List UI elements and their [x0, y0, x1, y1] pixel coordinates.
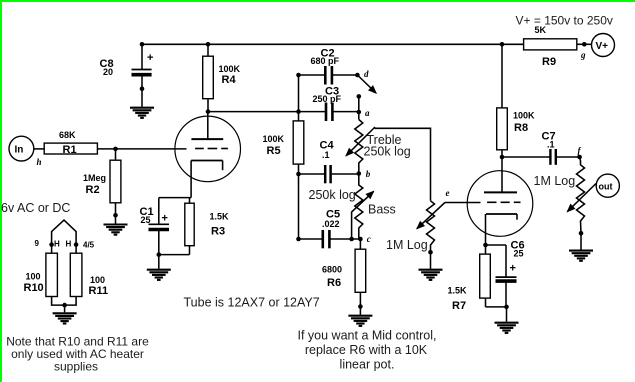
resistor R9 [524, 25, 577, 68]
svg-text:1.5K: 1.5K [210, 212, 230, 222]
top power rail wire [142, 43, 524, 45]
node: C4 left [296, 172, 301, 177]
capacitor C3 [299, 86, 359, 122]
wire anode to tone stack [208, 111, 299, 113]
resistor R10 [24, 245, 58, 297]
svg-text:Bass: Bass [368, 203, 396, 217]
svg-text:R3: R3 [211, 226, 225, 238]
node: R9 / V+ junction g [582, 42, 587, 47]
node b [357, 171, 362, 176]
potentiometer volume 1M Log [386, 201, 435, 252]
svg-text:R7: R7 [452, 300, 466, 312]
node on R6 ground lead [358, 304, 363, 309]
node: C2 left [296, 73, 301, 78]
wire R1 to grid [97, 148, 186, 150]
node c [358, 237, 363, 242]
pin label H H [54, 240, 72, 249]
ground (C8) [130, 108, 154, 118]
svg-text:g: g [580, 50, 586, 60]
ground (R6) [348, 316, 372, 326]
node: anode junction [206, 109, 211, 114]
resistor R3 [159, 198, 229, 255]
wire to ground [158, 255, 160, 269]
bass wiper arm [352, 188, 377, 239]
node: R1/R2 junction [113, 147, 118, 152]
node: C8 / rail corner [140, 42, 145, 47]
node: R11 top [74, 242, 79, 247]
svg-text:250k log: 250k log [309, 188, 356, 202]
node: R8 branch on rail [500, 42, 505, 47]
svg-text:R10: R10 [24, 282, 44, 294]
svg-text:R2: R2 [86, 184, 100, 196]
node: anode 2 junction [500, 155, 505, 160]
svg-text:20: 20 [103, 67, 113, 77]
svg-text:R4: R4 [222, 74, 237, 86]
svg-text:680 pF: 680 pF [311, 56, 340, 66]
node: R10 top [49, 242, 54, 247]
svg-text:V+: V+ [596, 41, 609, 52]
svg-text:1Meg: 1Meg [83, 173, 106, 183]
svg-text:R1: R1 [63, 144, 77, 156]
svg-text:9: 9 [35, 239, 40, 248]
svg-text:V+ = 150v to 250v: V+ = 150v to 250v [516, 14, 613, 28]
svg-text:+: + [162, 213, 168, 225]
wire cathode 2 to C6 [486, 244, 507, 246]
capacitor C4 [299, 140, 359, 184]
node: C3 left / bus [296, 109, 301, 114]
node f [577, 155, 582, 160]
svg-text:supplies: supplies [54, 360, 98, 374]
U1a grid dashes [195, 148, 228, 150]
capacitor C2 [299, 48, 358, 85]
node: cathode 2 junction [483, 243, 488, 248]
U1a plate [191, 112, 223, 140]
svg-text:R11: R11 [89, 285, 109, 297]
potentiometer output 1M Log [534, 157, 585, 233]
resistor R11 [70, 245, 108, 297]
svg-text:Tube is 12AX7 or 12AY7: Tube is 12AX7 or 12AY7 [184, 296, 320, 310]
node on output pot ground lead [579, 231, 584, 236]
svg-text:100: 100 [26, 272, 41, 282]
wire to ground [580, 233, 582, 249]
terminal Out [596, 174, 619, 197]
triode U1b envelope [467, 171, 533, 237]
heater tent wires [52, 220, 77, 245]
svg-text:100: 100 [90, 275, 105, 285]
svg-text:c: c [367, 234, 371, 244]
U1b cathode [486, 214, 518, 245]
triode U1a envelope [175, 116, 241, 182]
svg-text:1.5K: 1.5K [448, 286, 468, 296]
capacitor C6 [496, 240, 525, 307]
svg-text:.022: .022 [322, 219, 340, 229]
wire to ground [430, 252, 432, 269]
node: stage 2 ground junction [504, 305, 509, 310]
label: mid control note [298, 329, 437, 372]
node on R2 ground lead [113, 213, 118, 218]
svg-text:100K: 100K [219, 64, 241, 74]
node d [355, 73, 360, 78]
ground (output pot) [569, 251, 593, 261]
node: C1/R3 junction [157, 252, 162, 257]
svg-text:1M Log: 1M Log [386, 238, 428, 252]
svg-text:R8: R8 [514, 122, 528, 134]
wire R7/C6 bottoms [486, 306, 507, 308]
resistor R1 [44, 130, 97, 156]
node on C8 ground lead [140, 86, 145, 91]
node: C5 left [296, 237, 301, 242]
tone stack bus wire [298, 75, 300, 121]
svg-text:.1: .1 [322, 150, 330, 160]
ground (volume pot) [419, 270, 443, 280]
wire heater bottoms [52, 297, 77, 306]
resistor R6 [322, 239, 366, 315]
wire to ground [64, 305, 66, 312]
wire e to grid 2 [445, 202, 481, 204]
node: heater ground junction [62, 303, 67, 308]
svg-text:100K: 100K [263, 134, 285, 144]
wire R9 to V+ [577, 43, 592, 45]
svg-text:68K: 68K [59, 130, 76, 140]
svg-text:.1: .1 [547, 140, 555, 150]
resistor R7 [448, 245, 491, 312]
bus wire R5 to C5 row [298, 164, 300, 239]
capacitor C8 [100, 44, 154, 106]
svg-text:R5: R5 [267, 145, 281, 157]
U1b plate [484, 157, 517, 192]
treble wiper arrow from d [357, 75, 379, 97]
node a [357, 110, 362, 115]
svg-text:100K: 100K [513, 111, 535, 121]
svg-text:f: f [578, 146, 582, 156]
capacitor C1 [140, 198, 170, 255]
ground (cathode 1) [147, 270, 171, 280]
svg-text:If you want a Mid control,: If you want a Mid control, [298, 329, 437, 343]
resistor R8 [497, 44, 535, 157]
svg-text:+: + [510, 263, 516, 275]
potentiometer Treble 250k log [355, 120, 411, 174]
ground (stage 2) [495, 323, 519, 333]
resistor R2 [83, 149, 121, 224]
capacitor C7 [502, 131, 580, 165]
node: R4 top [206, 42, 211, 47]
svg-text:replace R6 with a 10K: replace R6 with a 10K [305, 343, 428, 357]
wire cathode to C1 [159, 197, 191, 199]
terminal V+ [592, 34, 615, 57]
svg-text:25: 25 [141, 215, 151, 225]
potentiometer Bass 250k log [309, 174, 396, 240]
svg-text:6v AC or DC: 6v AC or DC [1, 201, 70, 215]
svg-text:linear pot.: linear pot. [340, 358, 395, 372]
svg-text:+: + [147, 52, 153, 64]
wire treble top [358, 96, 360, 119]
svg-text:H: H [54, 240, 60, 249]
svg-text:a: a [365, 108, 370, 118]
svg-text:1M Log: 1M Log [534, 174, 576, 188]
resistor R5 [263, 121, 304, 164]
svg-text:25: 25 [514, 249, 524, 259]
svg-text:In: In [15, 144, 24, 155]
node: treble top terminal [357, 94, 362, 99]
label: heater usage note [6, 335, 149, 374]
ground (R2) [104, 225, 128, 235]
wire In to R1 [34, 148, 44, 150]
terminal In [9, 136, 34, 161]
wire treble wiper to volume pot [375, 128, 431, 201]
svg-text:4/5: 4/5 [83, 241, 95, 250]
capacitor C5 [299, 209, 361, 249]
volume wiper arm [414, 203, 445, 233]
svg-text:b: b [366, 169, 371, 179]
svg-text:250 pF: 250 pF [313, 94, 342, 104]
node: bass wiper to c wire [349, 237, 354, 242]
U1a cathode [191, 161, 223, 198]
svg-text:6800: 6800 [322, 265, 342, 275]
ground (heater) [53, 313, 77, 323]
svg-text:R6: R6 [327, 277, 341, 289]
svg-text:d: d [364, 69, 369, 79]
wire to ground [506, 307, 508, 322]
svg-text:R9: R9 [542, 56, 556, 68]
resistor R4 [203, 44, 241, 111]
svg-text:e: e [446, 188, 450, 198]
treble wiper arm [343, 127, 375, 159]
svg-text:h: h [37, 157, 42, 167]
output wiper arm [564, 184, 596, 216]
svg-text:out: out [599, 181, 613, 191]
node on volume pot ground lead [428, 250, 433, 255]
U1b grid dashes [487, 201, 520, 203]
svg-text:H: H [66, 240, 72, 249]
svg-text:250k log: 250k log [364, 145, 411, 159]
